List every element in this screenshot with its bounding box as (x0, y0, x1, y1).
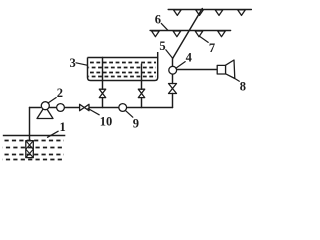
svg-text:10: 10 (100, 115, 113, 129)
svg-text:5: 5 (159, 39, 165, 53)
svg-text:1: 1 (60, 120, 66, 134)
svg-text:8: 8 (240, 79, 246, 93)
svg-text:3: 3 (70, 56, 76, 70)
svg-text:2: 2 (57, 86, 63, 100)
svg-text:6: 6 (155, 12, 161, 26)
svg-text:7: 7 (209, 41, 215, 55)
svg-text:9: 9 (133, 116, 139, 130)
svg-text:4: 4 (186, 51, 193, 65)
